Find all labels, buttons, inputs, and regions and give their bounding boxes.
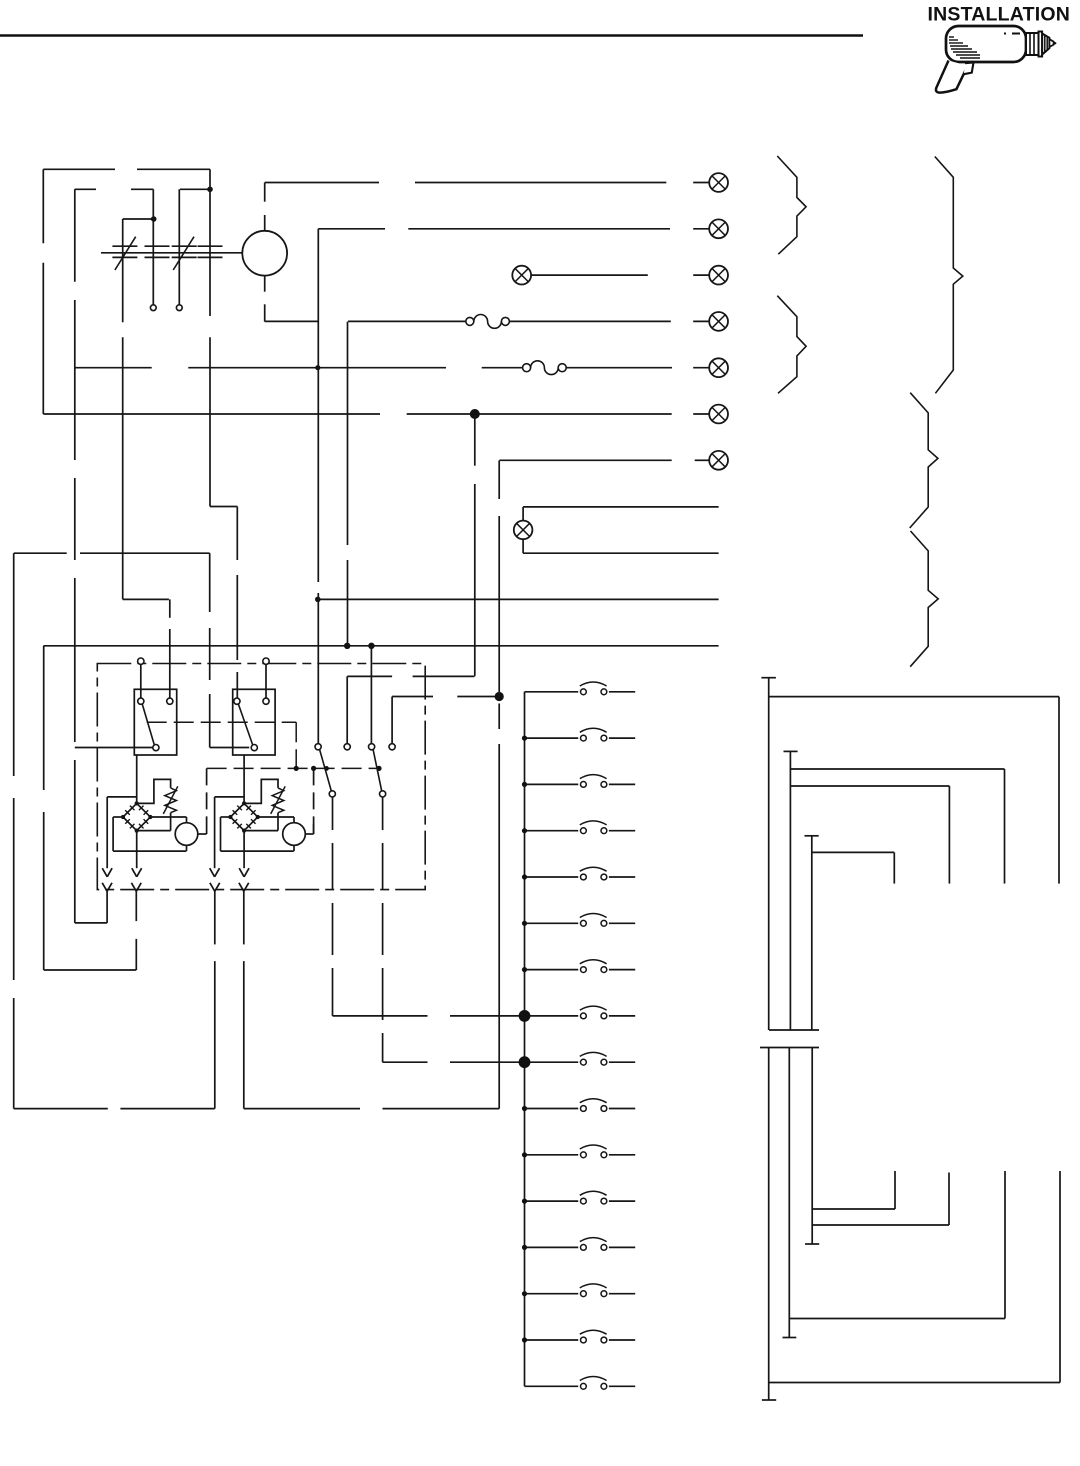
svg-text:INSTALLATION: INSTALLATION — [928, 4, 1071, 26]
